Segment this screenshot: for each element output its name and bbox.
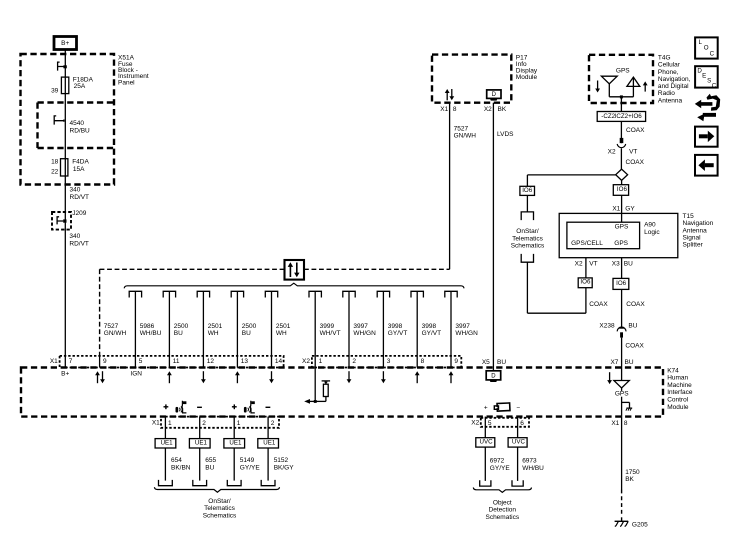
- svg-text:WH: WH: [208, 330, 219, 337]
- svg-text:7527: 7527: [454, 126, 469, 133]
- svg-text:RD/VT: RD/VT: [70, 194, 90, 201]
- svg-text:−: −: [516, 405, 520, 412]
- svg-text:340: 340: [69, 233, 80, 240]
- svg-text:15A: 15A: [73, 166, 85, 173]
- svg-text:E: E: [702, 72, 706, 79]
- svg-text:X5: X5: [482, 359, 490, 366]
- svg-text:BK: BK: [625, 476, 634, 483]
- svg-text:BU: BU: [205, 464, 214, 471]
- svg-text:4540: 4540: [70, 120, 85, 127]
- svg-text:COAX: COAX: [626, 159, 645, 166]
- svg-text:13: 13: [241, 358, 249, 365]
- svg-text:-CZ2lCZ2+IO6: -CZ2lCZ2+IO6: [601, 113, 642, 120]
- svg-text:22: 22: [51, 168, 59, 175]
- svg-text:OnStar/: OnStar/: [208, 498, 231, 505]
- svg-text:WH/BU: WH/BU: [522, 465, 544, 472]
- svg-text:C: C: [710, 51, 715, 58]
- svg-text:IO6: IO6: [522, 187, 533, 194]
- svg-text:B+: B+: [61, 40, 69, 47]
- svg-text:UE1: UE1: [263, 440, 276, 447]
- svg-text:F4DA: F4DA: [72, 159, 89, 166]
- svg-text:6: 6: [520, 420, 524, 427]
- svg-text:Phone,: Phone,: [658, 69, 679, 76]
- svg-text:GPS: GPS: [615, 224, 629, 231]
- svg-text:1: 1: [168, 420, 172, 427]
- svg-text:9: 9: [103, 358, 107, 365]
- svg-text:2500: 2500: [174, 323, 189, 330]
- svg-text:WH/VT: WH/VT: [320, 330, 341, 337]
- svg-text:B+: B+: [61, 371, 69, 378]
- svg-text:12: 12: [207, 358, 215, 365]
- svg-text:O: O: [704, 45, 709, 52]
- svg-text:C: C: [712, 82, 717, 89]
- svg-text:655: 655: [205, 457, 216, 464]
- svg-text:3: 3: [387, 358, 391, 365]
- svg-text:IO6: IO6: [580, 279, 591, 286]
- svg-text:RD/VT: RD/VT: [69, 241, 89, 248]
- svg-text:X7: X7: [610, 359, 618, 366]
- svg-text:WH/GN: WH/GN: [353, 330, 376, 337]
- svg-text:K74: K74: [667, 367, 679, 374]
- svg-text:3997: 3997: [455, 323, 470, 330]
- svg-text:T4G: T4G: [658, 55, 671, 62]
- svg-text:BU: BU: [624, 260, 633, 267]
- svg-text:+: +: [484, 405, 488, 412]
- svg-text:2: 2: [271, 420, 275, 427]
- svg-text:COAX: COAX: [626, 301, 645, 308]
- svg-text:5986: 5986: [140, 323, 155, 330]
- svg-text:Schematics: Schematics: [511, 243, 545, 250]
- svg-text:D: D: [492, 92, 497, 98]
- svg-text:X2: X2: [575, 260, 583, 267]
- svg-text:X2: X2: [484, 106, 492, 113]
- svg-text:Radio: Radio: [658, 90, 675, 97]
- svg-text:S: S: [707, 77, 711, 84]
- svg-text:Panel: Panel: [118, 79, 135, 86]
- svg-text:UVC: UVC: [512, 439, 526, 446]
- svg-text:UVC: UVC: [480, 439, 494, 446]
- svg-text:WH: WH: [276, 330, 287, 337]
- svg-text:2501: 2501: [208, 323, 223, 330]
- svg-text:Antenna: Antenna: [658, 97, 683, 104]
- svg-text:Object: Object: [493, 499, 512, 506]
- svg-text:GN/WH: GN/WH: [454, 133, 477, 140]
- svg-text:VT: VT: [629, 148, 637, 155]
- svg-text:Machine: Machine: [667, 382, 692, 389]
- svg-text:UE1: UE1: [161, 440, 174, 447]
- svg-text:Interface: Interface: [667, 389, 693, 396]
- svg-text:GY/YE: GY/YE: [490, 465, 511, 472]
- svg-text:UE1: UE1: [195, 440, 208, 447]
- svg-text:OnStar/: OnStar/: [516, 228, 539, 235]
- svg-text:X2: X2: [302, 358, 310, 365]
- svg-text:6972: 6972: [490, 458, 505, 465]
- svg-text:GY/VT: GY/VT: [422, 330, 442, 337]
- svg-text:A90: A90: [644, 222, 656, 229]
- svg-text:WH/BU: WH/BU: [140, 330, 162, 337]
- svg-text:Navigation: Navigation: [683, 220, 714, 227]
- svg-text:Control: Control: [667, 397, 689, 404]
- svg-text:Antenna: Antenna: [683, 227, 708, 234]
- svg-text:6973: 6973: [522, 458, 537, 465]
- svg-text:GY/VT: GY/VT: [388, 330, 408, 337]
- svg-text:RD/BU: RD/BU: [70, 128, 91, 135]
- svg-text:Telematics: Telematics: [512, 235, 543, 242]
- svg-text:7527: 7527: [104, 323, 119, 330]
- svg-text:LVDS: LVDS: [497, 131, 514, 138]
- svg-text:BU: BU: [242, 330, 251, 337]
- svg-text:COAX: COAX: [626, 127, 645, 134]
- svg-text:Schematics: Schematics: [485, 514, 519, 521]
- svg-text:Splitter: Splitter: [683, 242, 704, 249]
- svg-text:5: 5: [139, 358, 143, 365]
- svg-text:Schematics: Schematics: [203, 513, 237, 520]
- svg-text:IGN: IGN: [130, 371, 142, 378]
- svg-text:BU: BU: [628, 322, 637, 329]
- svg-text:BK/GY: BK/GY: [274, 464, 295, 471]
- svg-text:T15: T15: [683, 213, 695, 220]
- svg-text:7: 7: [69, 358, 73, 365]
- svg-text:UE1: UE1: [229, 440, 242, 447]
- svg-text:COAX: COAX: [589, 301, 608, 308]
- svg-text:BU: BU: [174, 330, 183, 337]
- svg-text:Module: Module: [667, 404, 689, 411]
- svg-text:G205: G205: [632, 522, 648, 529]
- svg-text:1: 1: [237, 420, 241, 427]
- svg-text:X1: X1: [50, 358, 58, 365]
- svg-text:8: 8: [421, 358, 425, 365]
- svg-text:BK/BN: BK/BN: [171, 464, 191, 471]
- svg-text:8: 8: [624, 420, 628, 427]
- svg-text:5152: 5152: [274, 457, 289, 464]
- svg-text:5149: 5149: [240, 457, 255, 464]
- svg-text:X238: X238: [599, 322, 615, 329]
- svg-text:1750: 1750: [625, 469, 640, 476]
- svg-text:X1: X1: [440, 106, 448, 113]
- svg-text:GPS: GPS: [616, 68, 630, 75]
- svg-text:BU: BU: [497, 359, 506, 366]
- svg-text:X2: X2: [471, 420, 479, 427]
- svg-text:1: 1: [319, 358, 323, 365]
- svg-text:WH/GN: WH/GN: [455, 330, 478, 337]
- svg-text:J209: J209: [72, 210, 86, 217]
- svg-text:L: L: [699, 39, 703, 46]
- svg-text:9: 9: [454, 358, 458, 365]
- svg-text:5: 5: [488, 420, 492, 427]
- svg-text:Telematics: Telematics: [204, 505, 235, 512]
- svg-text:2: 2: [202, 420, 206, 427]
- svg-text:and Digital: and Digital: [658, 83, 689, 90]
- svg-text:39: 39: [51, 87, 59, 94]
- svg-text:Cellular: Cellular: [658, 62, 681, 69]
- svg-text:IO6: IO6: [617, 186, 628, 193]
- svg-text:GPS: GPS: [615, 391, 629, 398]
- svg-text:BU: BU: [625, 359, 634, 366]
- svg-text:GPS: GPS: [614, 240, 628, 247]
- svg-text:X1: X1: [611, 420, 619, 427]
- svg-text:2501: 2501: [276, 323, 291, 330]
- svg-text:3999: 3999: [320, 323, 335, 330]
- svg-text:COAX: COAX: [625, 343, 644, 350]
- svg-text:X1: X1: [612, 206, 620, 213]
- svg-text:14: 14: [275, 358, 283, 365]
- svg-text:Signal: Signal: [683, 235, 702, 242]
- svg-text:D: D: [491, 373, 496, 379]
- svg-text:654: 654: [171, 457, 182, 464]
- svg-text:3997: 3997: [353, 323, 368, 330]
- svg-text:340: 340: [70, 187, 81, 194]
- svg-text:VT: VT: [589, 260, 597, 267]
- svg-text:2: 2: [352, 358, 356, 365]
- svg-text:3998: 3998: [422, 323, 437, 330]
- svg-text:X1: X1: [152, 420, 160, 427]
- svg-text:Detection: Detection: [489, 507, 517, 514]
- svg-text:2500: 2500: [242, 323, 257, 330]
- svg-text:GPS/CELL: GPS/CELL: [571, 240, 603, 247]
- svg-text:8: 8: [453, 106, 457, 113]
- svg-text:Human: Human: [667, 375, 688, 382]
- svg-text:Logic: Logic: [644, 229, 660, 236]
- svg-text:X2: X2: [608, 148, 616, 155]
- svg-text:25A: 25A: [74, 83, 86, 90]
- svg-text:IO6: IO6: [616, 280, 627, 287]
- svg-text:11: 11: [173, 358, 180, 365]
- svg-text:X3: X3: [612, 260, 620, 267]
- svg-text:Module: Module: [516, 74, 538, 81]
- svg-text:BK: BK: [498, 106, 507, 113]
- svg-text:3998: 3998: [388, 323, 403, 330]
- svg-text:GY: GY: [625, 206, 635, 213]
- svg-text:18: 18: [51, 159, 59, 166]
- svg-text:Navigation,: Navigation,: [658, 76, 691, 83]
- svg-text:GY/YE: GY/YE: [240, 464, 261, 471]
- svg-text:GN/WH: GN/WH: [104, 330, 127, 337]
